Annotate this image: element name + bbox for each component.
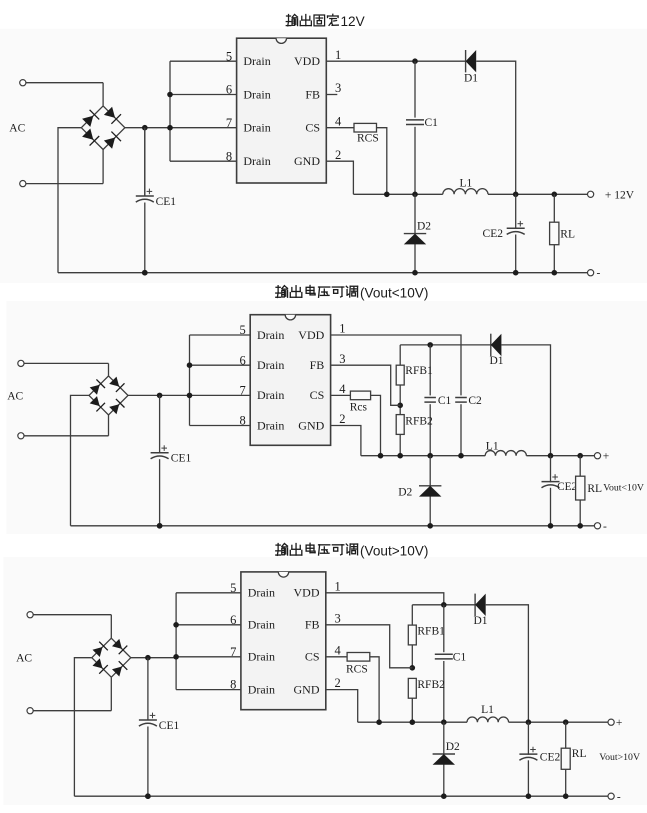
svg-text:AC: AC — [9, 123, 25, 135]
svg-text:4: 4 — [335, 643, 342, 657]
svg-text:RL: RL — [572, 748, 587, 760]
svg-text:8: 8 — [226, 149, 232, 163]
svg-text:3: 3 — [335, 611, 341, 625]
svg-text:5: 5 — [226, 49, 232, 63]
svg-text:+: + — [616, 717, 623, 729]
svg-text:FB: FB — [305, 618, 320, 632]
svg-text:Drain: Drain — [257, 328, 284, 342]
svg-text:CS: CS — [310, 388, 325, 402]
svg-text:D1: D1 — [474, 615, 488, 627]
svg-text:RFB1: RFB1 — [417, 626, 445, 638]
svg-text:D2: D2 — [398, 486, 412, 498]
svg-text:5: 5 — [239, 323, 245, 337]
svg-text:1: 1 — [335, 579, 341, 593]
svg-text:D1: D1 — [464, 73, 478, 85]
svg-text:CE1: CE1 — [156, 196, 177, 208]
svg-text:(Vout<10V): (Vout<10V) — [360, 286, 428, 301]
svg-text:Drain: Drain — [257, 418, 284, 432]
svg-text:CE1: CE1 — [159, 720, 180, 732]
svg-text:-: - — [597, 268, 601, 280]
svg-text:Drain: Drain — [248, 618, 275, 632]
svg-text:7: 7 — [230, 645, 236, 659]
svg-text:Drain: Drain — [248, 682, 275, 696]
svg-text:4: 4 — [335, 114, 342, 128]
svg-text:Drain: Drain — [248, 586, 275, 600]
svg-text:6: 6 — [226, 83, 232, 97]
svg-text:5: 5 — [230, 581, 236, 595]
svg-text:Drain: Drain — [243, 154, 270, 168]
svg-text:VDD: VDD — [294, 586, 320, 600]
svg-text:CE2: CE2 — [540, 751, 561, 763]
svg-text:Drain: Drain — [257, 358, 284, 372]
svg-text:D2: D2 — [417, 221, 431, 233]
svg-text:AC: AC — [16, 653, 32, 665]
svg-text:L1: L1 — [481, 704, 494, 716]
svg-text:-: - — [603, 521, 607, 533]
svg-text:-: - — [617, 791, 621, 803]
svg-text:8: 8 — [239, 414, 245, 428]
svg-text:4: 4 — [339, 382, 346, 396]
svg-text:8: 8 — [230, 678, 236, 692]
svg-text:VDD: VDD — [294, 54, 320, 68]
svg-text:Vout<10V: Vout<10V — [603, 483, 644, 494]
svg-text:CS: CS — [305, 121, 320, 135]
svg-text:CE1: CE1 — [171, 453, 192, 465]
svg-text:1: 1 — [339, 322, 345, 336]
svg-text:VDD: VDD — [298, 328, 324, 342]
svg-text:6: 6 — [239, 353, 245, 367]
svg-text:Drain: Drain — [257, 388, 284, 402]
svg-text:C2: C2 — [468, 395, 482, 407]
svg-text:RCS: RCS — [346, 663, 368, 675]
svg-text:RFB2: RFB2 — [405, 416, 433, 428]
svg-text:C1: C1 — [425, 117, 439, 129]
svg-text:7: 7 — [239, 384, 245, 398]
svg-text:Vout>10V: Vout>10V — [599, 752, 640, 763]
svg-text:AC: AC — [7, 390, 23, 402]
svg-text:GND: GND — [294, 682, 320, 696]
svg-text:RL: RL — [560, 228, 575, 240]
svg-text:D1: D1 — [490, 355, 504, 367]
svg-text:+: + — [603, 451, 610, 463]
svg-text:RCS: RCS — [357, 133, 379, 145]
svg-text:RL: RL — [587, 483, 602, 495]
svg-text:3: 3 — [339, 352, 345, 366]
svg-text:RFB1: RFB1 — [405, 365, 433, 377]
svg-text:FB: FB — [305, 87, 320, 101]
svg-text:Drain: Drain — [243, 54, 270, 68]
svg-text:CE2: CE2 — [557, 481, 577, 493]
svg-text:C1: C1 — [438, 395, 452, 407]
svg-text:L1: L1 — [460, 178, 473, 190]
svg-text:1: 1 — [335, 48, 341, 62]
svg-text:3: 3 — [335, 81, 341, 95]
svg-text:Drain: Drain — [248, 650, 275, 664]
svg-text:Drain: Drain — [243, 87, 270, 101]
svg-text:C1: C1 — [453, 652, 467, 664]
svg-text:2: 2 — [335, 676, 341, 690]
svg-text:CS: CS — [305, 650, 320, 664]
svg-text:2: 2 — [335, 148, 341, 162]
svg-text:CE2: CE2 — [483, 228, 504, 240]
svg-text:2: 2 — [339, 412, 345, 426]
svg-text:Rcs: Rcs — [350, 401, 368, 413]
svg-text:(Vout>10V): (Vout>10V) — [360, 544, 428, 559]
svg-text:6: 6 — [230, 613, 236, 627]
svg-text:RFB2: RFB2 — [417, 679, 445, 691]
svg-text:7: 7 — [226, 116, 232, 130]
svg-text:+ 12V: + 12V — [605, 189, 635, 201]
svg-text:Drain: Drain — [243, 121, 270, 135]
svg-text:L1: L1 — [486, 440, 499, 452]
svg-text:D2: D2 — [446, 741, 460, 753]
svg-text:12V: 12V — [341, 14, 365, 29]
svg-text:GND: GND — [294, 154, 320, 168]
svg-text:FB: FB — [310, 358, 325, 372]
svg-text:GND: GND — [298, 418, 324, 432]
